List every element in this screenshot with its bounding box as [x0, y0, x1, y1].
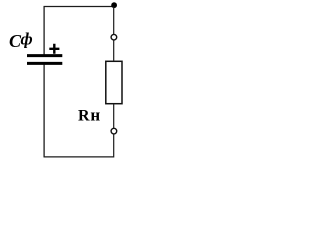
wire terminal to resistor: [113, 40, 115, 60]
wire right vertical (dot to terminal): [113, 7, 115, 35]
capacitor C phi top plate: [27, 54, 62, 57]
resistor RH body: [106, 61, 122, 103]
terminal circle lower: [111, 128, 117, 134]
plus polarity mark: [49, 44, 59, 54]
wire lower terminal to bottom: [113, 134, 115, 157]
svg-text:Rн: Rн: [78, 106, 100, 125]
capacitor C phi bottom plate: [27, 62, 62, 65]
wire left vertical upper (to capacitor): [43, 7, 45, 55]
wire bottom horizontal: [44, 156, 114, 158]
wire resistor to lower terminal: [113, 104, 115, 129]
wire left vertical lower (capacitor to bottom): [43, 65, 45, 158]
wire top horizontal: [44, 6, 115, 8]
node junction dot top right: [111, 2, 117, 8]
terminal circle upper: [111, 34, 117, 40]
svg-text:Cф: Cф: [9, 30, 33, 52]
